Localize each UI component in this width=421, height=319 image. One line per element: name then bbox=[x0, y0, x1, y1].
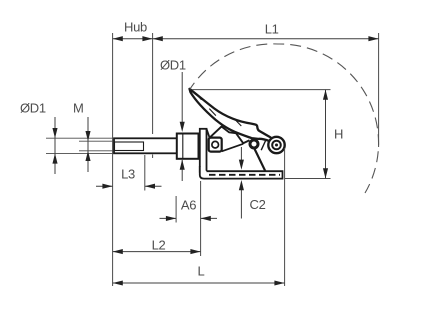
svg-text:ØD1: ØD1 bbox=[20, 101, 46, 116]
rod thread core bbox=[115, 142, 144, 151]
svg-text:L: L bbox=[198, 264, 205, 279]
clamp arm diagonal to plate bbox=[255, 149, 266, 171]
dimension Hub bbox=[113, 20, 153, 42]
linkage zigzag bbox=[210, 127, 250, 144]
wire: extension line left long (x=112.5) bbox=[112, 33, 114, 286]
base plate bbox=[200, 166, 283, 179]
bracket leg bbox=[200, 129, 207, 172]
dimension D1 left (rod diameter) bbox=[20, 101, 113, 175]
handle grip tick 2 bbox=[209, 109, 216, 116]
svg-text:Hub: Hub bbox=[124, 20, 147, 35]
dimension L3 bbox=[96, 155, 162, 191]
svg-text:ØD1: ØD1 bbox=[160, 58, 186, 73]
dimension A6 bbox=[160, 181, 218, 256]
rod plunger bbox=[114, 138, 177, 153]
wire: extension line hub right dashed through rod bbox=[152, 129, 154, 158]
bushing bbox=[177, 134, 199, 159]
wire: extension line hub right (x=152.6) bbox=[152, 33, 154, 129]
handle grip tick 1 bbox=[195, 93, 201, 99]
dimension L1 bbox=[153, 22, 379, 42]
pivot center dot bbox=[275, 144, 278, 147]
wire: extension line L right (x=284.2) bbox=[284, 148, 286, 286]
bushing step line bbox=[182, 134, 184, 159]
svg-text:L2: L2 bbox=[152, 238, 166, 253]
svg-text:M: M bbox=[73, 101, 84, 116]
svg-text:C2: C2 bbox=[250, 197, 266, 212]
dimension H bbox=[192, 90, 343, 179]
dimension C2 bbox=[239, 147, 266, 219]
linkage front link upper bbox=[207, 129, 210, 138]
base plate slot hidden line bbox=[209, 174, 280, 176]
handle lever bbox=[190, 89, 274, 141]
handle grip tick 3 bbox=[235, 119, 242, 126]
linkage lower bar bbox=[222, 144, 243, 152]
pad square bbox=[209, 138, 222, 152]
svg-text:A6: A6 bbox=[181, 198, 196, 213]
pad circle bbox=[212, 141, 219, 148]
pin mid ring bbox=[250, 140, 258, 148]
svg-text:L3: L3 bbox=[121, 167, 135, 182]
svg-text:L1: L1 bbox=[265, 22, 279, 37]
dimension D1 top (bushing diameter) bbox=[160, 58, 186, 182]
svg-text:H: H bbox=[334, 126, 343, 141]
wire: extension line L1 right (x=378.6) bbox=[378, 33, 380, 147]
dimension L bbox=[113, 264, 285, 286]
swing arc dashed bbox=[190, 44, 379, 193]
pivot main boss bbox=[268, 137, 284, 153]
pivot inner ring bbox=[272, 141, 281, 150]
clamp arm second edge bbox=[261, 138, 267, 151]
dimension L2 bbox=[113, 238, 201, 255]
dimension M (thread) bbox=[73, 101, 113, 173]
